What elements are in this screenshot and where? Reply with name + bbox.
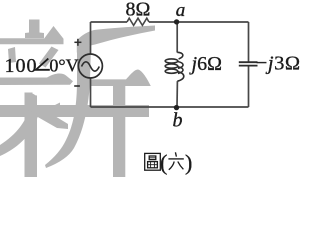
wire right side lower xyxy=(248,66,250,107)
caption figure(six) xyxy=(145,153,161,170)
wire bottom rail xyxy=(91,106,249,108)
inductor L j6ohm coil xyxy=(165,52,184,81)
resistor R 8ohm zigzag xyxy=(127,18,149,25)
watermark xyxy=(0,20,155,178)
svg-text:a: a xyxy=(176,0,186,21)
wire middle branch upper xyxy=(176,22,178,53)
plus sign of source xyxy=(74,39,81,46)
voltage source sine wave xyxy=(82,62,100,71)
svg-text:j6Ω: j6Ω xyxy=(189,53,222,75)
capacitor C plates xyxy=(239,62,258,65)
source value label 100 angle 0 deg V xyxy=(5,55,79,77)
wire left side xyxy=(90,22,92,54)
node b dot xyxy=(174,105,179,110)
svg-text:8Ω: 8Ω xyxy=(126,0,151,20)
svg-text:0°V: 0°V xyxy=(49,56,78,76)
wire top rail left segment xyxy=(91,21,128,23)
voltage source VS circle xyxy=(78,54,102,78)
svg-text:(: ( xyxy=(160,150,167,175)
wire middle branch lower xyxy=(176,81,178,107)
svg-text:): ) xyxy=(185,150,192,175)
glyph tu (figure) box xyxy=(145,153,161,170)
svg-text:−j3Ω: −j3Ω xyxy=(256,53,301,75)
svg-text:100: 100 xyxy=(5,55,38,77)
wire right side upper xyxy=(248,22,250,62)
minus sign of source xyxy=(74,85,80,87)
node a dot xyxy=(174,19,179,24)
wire top rail right segment xyxy=(149,21,249,23)
svg-text:b: b xyxy=(173,110,183,132)
